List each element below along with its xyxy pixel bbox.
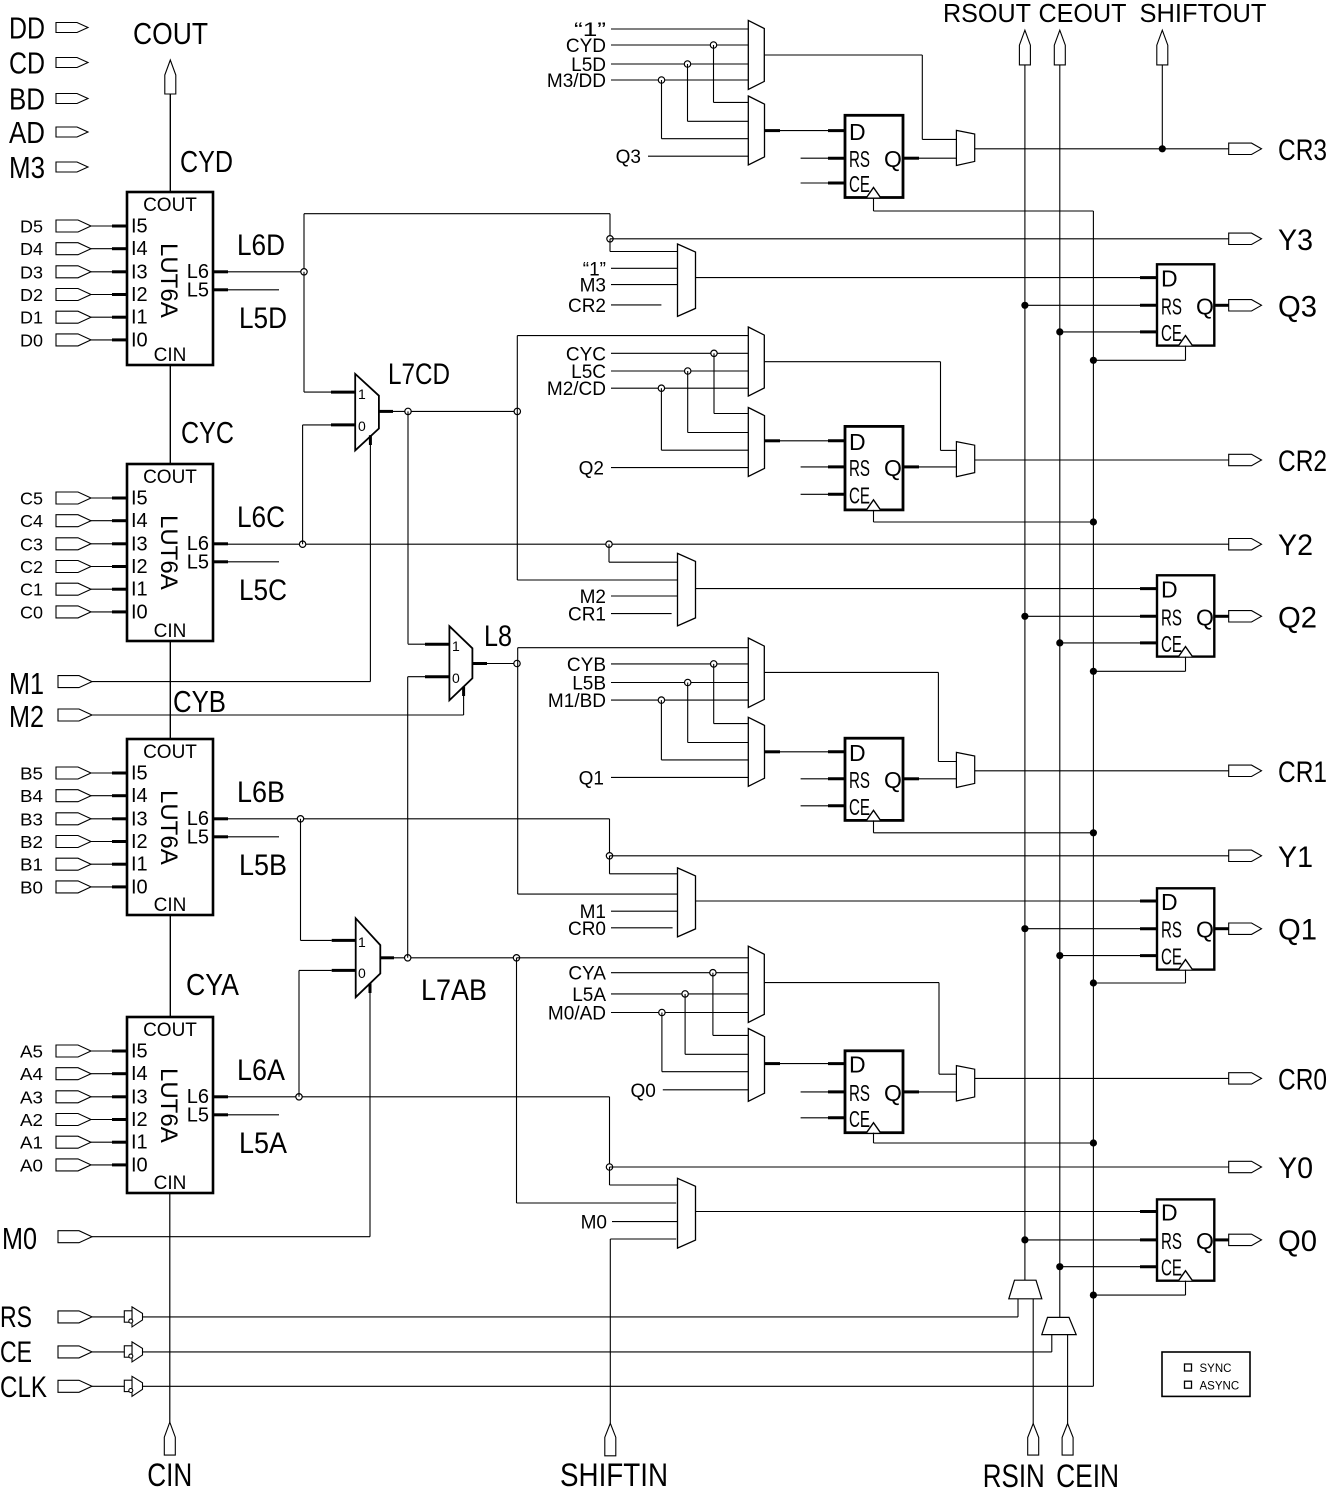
input pin C4: [20, 511, 112, 531]
input pin B1: [20, 855, 112, 875]
svg-text:L6B: L6B: [237, 776, 285, 809]
svg-text:BD: BD: [9, 82, 45, 117]
mux L7AB: [332, 918, 487, 1007]
port RSIN: [983, 1424, 1045, 1495]
port CEOUT: [1039, 0, 1127, 65]
port Q2: [1229, 601, 1317, 634]
port CR1: [1229, 756, 1327, 789]
wire CR3 output: [975, 148, 1229, 150]
wire net L6A to L7AB input 0: [299, 970, 332, 1096]
input pin C0: [20, 602, 112, 622]
wire SHIFTIN vertical: [610, 1239, 676, 1423]
svg-text:C4: C4: [20, 511, 43, 531]
svg-text:D: D: [849, 429, 866, 455]
wire Y3 tap to mux Y3: [610, 239, 678, 252]
wire Y0: [610, 1166, 1229, 1168]
svg-text:0: 0: [358, 965, 366, 981]
wire mux A0 output bypass: [764, 983, 956, 1075]
svg-text:CYC: CYC: [181, 415, 234, 450]
svg-text:RS: RS: [1161, 293, 1182, 319]
label L5C: [239, 574, 287, 607]
port RSOUT: [943, 0, 1031, 65]
wire QFF1 clock: [1090, 970, 1186, 987]
wire L7AB to L8 input 0: [408, 677, 425, 958]
wire net L6B: [228, 819, 610, 856]
svg-text:D: D: [1161, 1200, 1178, 1226]
svg-text:I5: I5: [131, 763, 148, 785]
svg-text:Y0: Y0: [1278, 1152, 1313, 1185]
LUT6A LUT-B: [112, 739, 228, 916]
wire Y0 tap to mux Y0: [610, 1167, 678, 1185]
svg-text:DD: DD: [9, 11, 45, 46]
svg-text:I4: I4: [131, 785, 148, 807]
mux L8: [425, 620, 512, 700]
wire carry CIN-LUTA: [169, 1193, 171, 1422]
port SHIFTIN: [560, 1423, 668, 1493]
node L7AB net junction: [513, 955, 519, 961]
input pin D5: [20, 217, 112, 237]
svg-text:CYB: CYB: [173, 684, 226, 719]
wire M2 select to L8: [92, 687, 464, 715]
mux CR0 (registered/combinational select): [956, 1066, 974, 1101]
svg-text:C1: C1: [20, 580, 43, 600]
svg-text:LUT6A: LUT6A: [155, 515, 182, 590]
wire tap L5D to mux B3 input 3: [658, 77, 748, 139]
wire RS bus to QFF3: [1021, 302, 1157, 309]
port COUT (carry out, top): [133, 16, 208, 94]
input pin M0: [2, 1221, 92, 1256]
wire FF3 clock: [874, 198, 1094, 212]
svg-text:D: D: [1161, 889, 1178, 915]
svg-text:I2: I2: [131, 1109, 148, 1131]
wire net L6C to L7CD input 0: [303, 425, 331, 544]
svg-text:RS: RS: [1161, 917, 1182, 943]
svg-text:M0/AD: M0/AD: [548, 1004, 606, 1025]
wire tap CYA to mux B0 input 1: [710, 970, 749, 1036]
svg-text:1: 1: [452, 638, 460, 654]
svg-text:I5: I5: [131, 488, 148, 510]
svg-text:A4: A4: [20, 1064, 43, 1084]
node Y0 tap: [606, 1164, 612, 1170]
svg-text:CR0: CR0: [568, 919, 606, 940]
svg-text:I5: I5: [131, 216, 148, 238]
wire net L6D: [228, 214, 610, 272]
input pin RS: [0, 1301, 92, 1334]
LUT6A LUT-D: [112, 192, 228, 366]
mux CR2 (registered/combinational select): [956, 442, 974, 477]
net label M1/BD (bit 1 cluster): [548, 691, 748, 712]
net label “1” (bit 3 cluster): [574, 20, 748, 41]
svg-text:CLK: CLK: [0, 1371, 47, 1404]
label L5D: [239, 302, 287, 335]
wire FF1 clock: [874, 820, 1098, 836]
net label M3 (mux Y3): [580, 276, 678, 297]
svg-text:M2: M2: [9, 699, 44, 734]
flip-flop QFF0 (output register): [1157, 1199, 1214, 1280]
wire FF0 CE stub: [801, 1117, 845, 1119]
junction SHIFTOUT-CR3: [1159, 145, 1166, 152]
svg-text:CE: CE: [1161, 320, 1182, 346]
svg-text:A1: A1: [20, 1133, 43, 1153]
svg-text:L6D: L6D: [237, 229, 285, 262]
svg-text:C3: C3: [20, 534, 43, 554]
svg-text:Q0: Q0: [1278, 1225, 1317, 1258]
svg-text:CE: CE: [849, 794, 870, 820]
mux Y3 (output select): [678, 244, 696, 316]
wire net L5B stub: [228, 836, 279, 838]
wire tap CYB to mux B1 input 1: [711, 661, 749, 724]
wire RS line: [92, 1299, 1018, 1317]
svg-text:D5: D5: [20, 217, 43, 237]
svg-text:B4: B4: [20, 786, 43, 806]
wire CR0 output: [975, 1077, 1229, 1079]
net label L5B (bit 1 cluster): [572, 674, 748, 695]
input pin B5: [20, 764, 112, 784]
svg-text:I1: I1: [131, 1132, 148, 1154]
wire Y3: [610, 238, 1229, 240]
svg-text:Q: Q: [1196, 604, 1214, 630]
wire tap M1/BD to mux B1 input 3: [658, 697, 748, 760]
wire FF3 RS stub: [801, 157, 845, 159]
wire QFF0 clock: [1090, 1281, 1186, 1299]
svg-text:L8: L8: [484, 620, 512, 653]
mux B2 (FF data select): [748, 408, 764, 477]
input pin C1: [20, 580, 112, 600]
buffer CE: [124, 1342, 142, 1362]
svg-text:D2: D2: [20, 285, 43, 305]
svg-text:CR1: CR1: [1278, 756, 1327, 789]
svg-text:RS: RS: [0, 1301, 32, 1334]
input pin M1: [9, 666, 92, 701]
label L6B: [237, 776, 285, 809]
input pin C5: [20, 489, 112, 509]
wire QFF2 Q output: [1214, 615, 1228, 618]
mux A1 (shift/route select): [748, 638, 764, 708]
node L7AB output junction: [405, 955, 411, 961]
svg-text:COUT: COUT: [143, 195, 197, 216]
input pin A4: [20, 1064, 112, 1084]
input pin A5: [20, 1042, 112, 1062]
svg-text:Q3: Q3: [1278, 290, 1317, 323]
flip-flop QFF3 (output register): [1157, 264, 1214, 346]
wire net L6D to L7CD input 1: [304, 272, 331, 392]
wire QFF3 Q output: [1214, 304, 1228, 307]
wire mux Y2 output to QFF2 D: [696, 588, 1158, 590]
svg-text:I4: I4: [131, 1063, 148, 1085]
mux L7CD: [331, 358, 450, 450]
mux CR1 (registered/combinational select): [956, 752, 974, 787]
wire net L6B to L7AB input 1: [301, 819, 332, 941]
svg-text:I2: I2: [131, 284, 148, 306]
svg-text:Q3: Q3: [616, 147, 641, 168]
mux A2 (shift/route select): [748, 327, 764, 396]
buffer CLK: [124, 1376, 142, 1396]
svg-text:COUT: COUT: [133, 16, 208, 51]
wire QFF0 Q output: [1214, 1238, 1228, 1241]
svg-text:CIN: CIN: [154, 895, 187, 916]
port Y0: [1229, 1152, 1313, 1185]
svg-text:CYD: CYD: [180, 144, 233, 179]
wire FF2 Q to mux CR2: [903, 465, 956, 468]
svg-text:I1: I1: [131, 854, 148, 876]
svg-text:CYD: CYD: [566, 36, 606, 57]
net label Q2 (feedback into mux B2): [579, 459, 749, 480]
net label Q3 (feedback into mux B3): [616, 147, 749, 168]
svg-text:D: D: [1161, 577, 1178, 603]
flip-flop FF0 (slice register): [845, 1051, 903, 1133]
wire RS bus to QFF0: [1021, 1236, 1157, 1243]
svg-text:RS: RS: [849, 146, 870, 172]
svg-text:RSIN: RSIN: [983, 1458, 1045, 1492]
net label M3/DD (bit 3 cluster): [547, 71, 748, 92]
svg-text:D3: D3: [20, 262, 43, 282]
svg-text:Q: Q: [884, 455, 902, 481]
input pin A0: [20, 1155, 112, 1175]
svg-text:A3: A3: [20, 1087, 43, 1107]
wire mux A3 output bypass: [764, 55, 956, 139]
mux B3 (FF data select): [748, 96, 764, 165]
svg-text:RS: RS: [849, 1080, 870, 1106]
svg-text:ASYNC: ASYNC: [1200, 1380, 1240, 1392]
port CIN (carry in, bottom): [147, 1422, 192, 1493]
legend SYNC/ASYNC: [1162, 1352, 1250, 1396]
input pin C3: [20, 534, 112, 554]
wire carry LUTB-LUTA / node CYA: [170, 915, 239, 1017]
wire CEIN input: [1067, 1335, 1069, 1424]
wire CE bus to QFF0: [1056, 1263, 1157, 1270]
svg-text:RS: RS: [1161, 1228, 1182, 1254]
node L6B tap: [297, 816, 303, 822]
svg-text:A0: A0: [20, 1155, 43, 1175]
svg-text:I3: I3: [131, 533, 148, 555]
wire L7CD to mux Y2 input: [517, 411, 677, 580]
input pin CE: [0, 1336, 92, 1369]
wire net L5A stub: [228, 1114, 279, 1116]
svg-text:1: 1: [358, 386, 366, 402]
wire FF0 RS stub: [801, 1091, 845, 1093]
input pin D3: [20, 262, 112, 282]
svg-text:I2: I2: [131, 556, 148, 578]
svg-text:M0: M0: [581, 1213, 607, 1234]
mux B1 (FF data select): [748, 717, 764, 786]
svg-text:M1/BD: M1/BD: [548, 691, 606, 712]
net label CR0 (mux Y1): [568, 919, 673, 940]
input pin D2: [20, 285, 112, 305]
svg-text:C0: C0: [20, 602, 43, 622]
node L6C tap: [299, 541, 305, 547]
wire QFF1 Q output: [1214, 927, 1228, 930]
wire QFF2 clock: [1090, 657, 1186, 675]
wire L7CD output: [379, 410, 517, 413]
wire CE bus to QFF1: [1056, 952, 1157, 959]
svg-text:B2: B2: [20, 832, 43, 852]
svg-text:Y2: Y2: [1278, 529, 1313, 562]
svg-text:CD: CD: [9, 46, 45, 81]
svg-text:LUT6A: LUT6A: [155, 790, 182, 865]
svg-text:CEIN: CEIN: [1056, 1458, 1119, 1492]
mux A3 (shift/route select): [748, 20, 764, 89]
wire CE bus to QFF2: [1056, 639, 1157, 646]
net label CR1 (mux Y2): [568, 605, 672, 626]
svg-text:I0: I0: [131, 1154, 148, 1176]
svg-text:COUT: COUT: [143, 467, 197, 488]
svg-text:B0: B0: [20, 877, 43, 897]
wire mux Y1 output to QFF1 D: [696, 900, 1158, 902]
mux CE select (sync/async): [1042, 1317, 1076, 1334]
svg-text:D: D: [849, 119, 866, 145]
svg-text:RS: RS: [849, 455, 870, 481]
input pin D4: [20, 239, 112, 259]
svg-text:COUT: COUT: [143, 1020, 197, 1041]
svg-text:LUT6A: LUT6A: [155, 1068, 182, 1143]
svg-text:CR2: CR2: [1278, 445, 1327, 478]
wire FF1 Q to mux CR1: [903, 777, 956, 780]
net label “1” (mux Y3): [583, 259, 678, 280]
mux B0 (FF data select): [748, 1029, 764, 1102]
svg-text:I3: I3: [131, 261, 148, 283]
LUT6A LUT-C: [112, 464, 228, 642]
wire FF3 Q to mux CR3: [903, 157, 956, 160]
svg-text:L5A: L5A: [239, 1127, 287, 1160]
label L6A: [237, 1054, 285, 1087]
svg-text:B5: B5: [20, 764, 43, 784]
flip-flop FF3 (slice register): [845, 115, 903, 197]
svg-text:COUT: COUT: [143, 742, 197, 763]
node Y1 tap: [606, 853, 612, 859]
mux A0 (shift/route select): [748, 946, 764, 1022]
port CR3: [1229, 134, 1327, 167]
svg-text:I1: I1: [131, 307, 148, 329]
wire CE bus: [1059, 65, 1061, 1318]
svg-text:L5C: L5C: [239, 574, 287, 607]
wire Y1 tap to mux Y1: [610, 856, 678, 874]
wire CE bus to QFF3: [1056, 328, 1157, 335]
net label CYA (bit 0 cluster): [568, 964, 748, 985]
svg-text:Q: Q: [884, 767, 902, 793]
svg-text:B1: B1: [20, 855, 43, 875]
wire mux B1 output to FF D: [765, 750, 846, 753]
svg-text:L5: L5: [187, 279, 209, 301]
wire net L6C / Y2 line: [228, 543, 1229, 545]
wire tap M2/CD to mux B2 input 3: [658, 385, 748, 450]
svg-text:Y3: Y3: [1278, 224, 1313, 257]
wire L7AB to mux A0 shift input: [517, 957, 749, 959]
wire mux B2 output to FF D: [765, 439, 846, 442]
svg-text:L5D: L5D: [239, 302, 287, 335]
node Y2 tap: [606, 541, 612, 547]
wire mux B0 output to FF D: [765, 1062, 846, 1065]
buffer RS: [124, 1307, 142, 1327]
node L7CD output junction: [405, 408, 411, 414]
svg-text:SHIFTIN: SHIFTIN: [560, 1457, 668, 1492]
svg-text:CIN: CIN: [154, 621, 187, 642]
wire L7CD to mux A2 shift input: [517, 336, 748, 412]
label L6D: [237, 229, 285, 262]
svg-text:Q: Q: [1196, 1228, 1214, 1254]
svg-text:I5: I5: [131, 1041, 148, 1063]
svg-text:CYA: CYA: [186, 967, 239, 1002]
wire mux A1 output bypass: [764, 672, 956, 761]
wire FF3 CE stub: [801, 182, 845, 184]
input pin A3: [20, 1087, 112, 1107]
svg-text:SYNC: SYNC: [1200, 1363, 1232, 1375]
port Y2: [1229, 529, 1313, 562]
net label M2/CD (bit 2 cluster): [547, 379, 748, 400]
svg-text:CR2: CR2: [568, 296, 606, 317]
mux CR3 (registered/combinational select): [956, 130, 974, 165]
wire Y1: [610, 855, 1229, 857]
node Y3 tap: [607, 236, 613, 242]
svg-text:L5: L5: [187, 1104, 209, 1126]
svg-text:D0: D0: [20, 330, 43, 350]
wire CR1 output: [975, 770, 1229, 772]
svg-text:Y1: Y1: [1278, 841, 1313, 874]
wire carry COUT-LUTD / node CYD: [170, 94, 233, 192]
wire net L5C stub: [228, 561, 279, 563]
svg-text:CE: CE: [849, 1106, 870, 1132]
svg-text:Q: Q: [884, 146, 902, 172]
net label M0 (mux Y0): [581, 1213, 678, 1234]
wire net L5D stub: [228, 289, 279, 291]
svg-text:SHIFTOUT: SHIFTOUT: [1140, 0, 1267, 28]
input pin B4: [20, 786, 112, 806]
svg-text:M3: M3: [580, 276, 606, 297]
svg-text:L5: L5: [187, 826, 209, 848]
svg-text:I2: I2: [131, 831, 148, 853]
port Q3: [1229, 290, 1317, 323]
svg-text:Q1: Q1: [1278, 914, 1317, 947]
net label M1 (mux Y1): [580, 902, 678, 923]
net label CYC (bit 2 cluster): [566, 344, 748, 365]
svg-text:A2: A2: [20, 1110, 43, 1130]
flip-flop QFF1 (output register): [1157, 888, 1214, 969]
node L6D tap: [301, 269, 307, 275]
wire RS bus to QFF1: [1021, 925, 1157, 932]
svg-text:I3: I3: [131, 1086, 148, 1108]
wire CLK line: [92, 1385, 1093, 1387]
flip-flop FF2 (slice register): [845, 426, 903, 510]
wire L7CD to L8 input 1: [408, 411, 425, 644]
mux RS select (sync/async): [1009, 1280, 1042, 1299]
wire L8 to mux A1 shift input: [518, 648, 749, 664]
port CR2: [1229, 445, 1327, 478]
svg-text:CIN: CIN: [154, 1173, 187, 1194]
svg-text:AD: AD: [9, 115, 45, 150]
svg-text:RS: RS: [1161, 604, 1182, 630]
svg-text:I4: I4: [131, 238, 148, 260]
svg-text:L7AB: L7AB: [421, 974, 487, 1007]
port CR0: [1229, 1063, 1327, 1096]
wire tap L5B to mux B1 input 2: [685, 679, 749, 742]
wire tap CYC to mux B2 input 1: [711, 350, 749, 413]
input pin M2: [9, 699, 92, 734]
svg-text:Q2: Q2: [579, 459, 604, 480]
wire tap “1” to mux B3 input 1: [710, 42, 748, 103]
net label L5A (bit 0 cluster): [572, 985, 748, 1006]
port Q1: [1229, 914, 1317, 947]
svg-text:B3: B3: [20, 809, 43, 829]
input pin A2: [20, 1110, 112, 1130]
svg-text:1: 1: [358, 934, 366, 950]
mux Y1 (output select): [678, 868, 696, 937]
svg-text:CIN: CIN: [154, 345, 187, 366]
wire CR2 output: [975, 459, 1229, 461]
net label Q1 (feedback into mux B1): [579, 768, 749, 789]
wire RS bus: [1024, 65, 1026, 1280]
svg-text:D1: D1: [20, 308, 43, 328]
svg-text:D: D: [849, 1052, 866, 1078]
input pin B0: [20, 877, 112, 897]
